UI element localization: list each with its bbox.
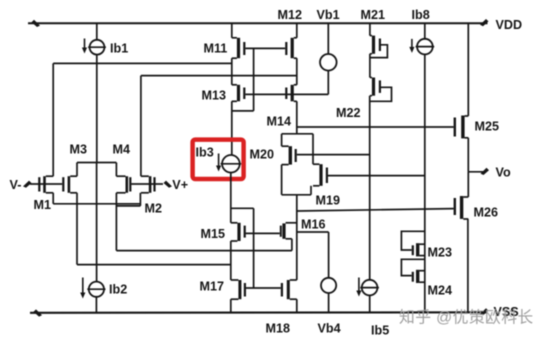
transistor M17: [231, 280, 246, 299]
transistor M4 label: [113, 143, 131, 157]
current source Ib8: [416, 39, 435, 55]
transistor M12 label: [278, 8, 303, 22]
wire M2-source riser: [140, 76, 142, 177]
wire VDD rail: [28, 22, 488, 24]
wire M20 gate line: [297, 154, 370, 156]
port V+ arrow: [164, 181, 173, 188]
watermark zhihu: [399, 309, 534, 327]
current source Ib8 label: [412, 8, 430, 22]
wire M4-drain drop / to midline: [115, 193, 117, 251]
svg-text:M12: M12: [278, 8, 303, 22]
wire M21-drain to M22-source: [369, 54, 371, 78]
wire gate-riser x253: [253, 48, 255, 111]
transistor M21: [370, 36, 381, 54]
wire M24 gate-drain loop: [401, 259, 424, 275]
wire V+ to gates: [131, 183, 163, 185]
transistor M21 label: [361, 8, 386, 22]
wire M14-drain down: [296, 101, 298, 134]
wire node-B horizontal: [141, 75, 297, 77]
transistor M23: [412, 243, 425, 256]
wire M19/M20 drain join: [282, 194, 311, 196]
transistor M18 label: [266, 322, 291, 336]
wire Ib5 to VSS: [369, 295, 371, 312]
svg-text:Ib1: Ib1: [110, 42, 128, 56]
svg-text:Vb1: Vb1: [317, 8, 340, 22]
transistor M20 label: [250, 148, 275, 162]
wire M19-source riser: [312, 134, 314, 164]
current arrow Ib2: [80, 278, 85, 299]
current source Ib5: [360, 280, 379, 296]
transistor M1 label: [34, 198, 52, 212]
node Vo label: [496, 166, 511, 180]
wire drain bus: [53, 203, 140, 205]
wire M17-M18 gate line: [246, 287, 281, 289]
svg-text:M14: M14: [267, 115, 292, 129]
voltage source Vb4 label: [318, 322, 341, 336]
wire link y232 to Vb4: [297, 231, 329, 233]
wire M17-drain to VSS: [230, 299, 232, 313]
svg-text:M25: M25: [475, 120, 500, 134]
svg-text:M23: M23: [428, 246, 453, 260]
svg-text:M21: M21: [361, 8, 386, 22]
wire tail to Ib2: [96, 163, 98, 282]
svg-text:M2: M2: [145, 202, 163, 216]
wire Ib2 to VSS: [95, 297, 97, 313]
svg-text:M13: M13: [202, 89, 227, 103]
wire output node vertical: [296, 195, 298, 280]
transistor M20: [282, 146, 297, 164]
svg-text:Ib3: Ib3: [196, 146, 214, 160]
wire source top-bus: [77, 162, 116, 164]
transistor M2: [141, 176, 156, 193]
wire Vb4 to VSS: [328, 293, 330, 313]
wire M14-drain jog: [282, 133, 313, 135]
transistor M26: [454, 196, 469, 219]
wire M15-drain chain: [230, 241, 232, 280]
current arrow Ib1: [82, 39, 87, 54]
wire M3-drain drop / to lineB: [76, 193, 78, 265]
wire M19-drain drop: [310, 186, 312, 195]
transistor M14 label: [267, 115, 292, 129]
transistor M14: [285, 85, 297, 102]
wire M25-drain to Vo: [467, 138, 469, 172]
svg-text:M18: M18: [266, 322, 291, 336]
svg-text:Ib2: Ib2: [109, 283, 127, 297]
wire M12-drain to M14-source: [296, 58, 298, 85]
svg-text:M16: M16: [301, 218, 326, 232]
wire VDD-to-M12: [296, 23, 298, 38]
transistor M3: [62, 176, 77, 193]
wire M4-source riser: [115, 163, 117, 177]
transistor M22 label: [336, 106, 361, 120]
port V- arrow: [23, 181, 32, 188]
transistor M11: [232, 38, 246, 58]
wire VDD-to-Ib8: [424, 23, 426, 38]
svg-text:M22: M22: [336, 106, 361, 120]
svg-text:知乎 @优策欧科长: 知乎 @优策欧科长: [399, 309, 534, 327]
node VDD-left-tick: [32, 20, 41, 27]
wire M13-drain down: [231, 101, 233, 155]
voltage source Vb4: [321, 278, 336, 293]
svg-text:VDD: VDD: [496, 18, 523, 32]
transistor M13 label: [202, 89, 227, 103]
transistor M19: [313, 164, 328, 186]
wire Vb4 riser: [328, 232, 330, 278]
current arrow Ib5: [356, 278, 361, 297]
transistor M18: [281, 280, 297, 299]
svg-text:M15: M15: [201, 227, 226, 241]
wire VDD-to-Ib1: [96, 23, 98, 40]
wire M22 gate-drain hook: [370, 87, 392, 101]
transistor M19 label: [316, 194, 341, 208]
node VSS-left-tick: [34, 309, 43, 316]
current source Ib2: [87, 282, 105, 297]
node VSS label: [494, 305, 519, 319]
svg-text:M1: M1: [34, 198, 52, 212]
wire VDD right drop: [467, 23, 469, 116]
wire mid link y250: [116, 250, 292, 252]
transistor M17 label: [200, 280, 225, 294]
transistor M25 label: [475, 120, 500, 134]
wire VDD-to-M21: [369, 23, 371, 35]
wire M19 gate line: [328, 175, 425, 177]
wire M1-source riser: [52, 63, 54, 176]
svg-text:M3: M3: [70, 143, 88, 157]
wire VDD-to-Vb1: [327, 23, 329, 54]
svg-text:Ib5: Ib5: [371, 324, 389, 338]
wire M25 gate line: [297, 126, 454, 128]
wire M11-drain to M13-source: [231, 58, 233, 85]
svg-text:M20: M20: [250, 148, 275, 162]
node VDD label: [496, 18, 523, 32]
svg-text:M17: M17: [200, 280, 225, 294]
wire M20-source drop: [281, 134, 283, 146]
wire VDD-to-M11: [231, 23, 233, 38]
transistor M16: [280, 223, 297, 239]
wire M2-drain jog: [116, 205, 140, 207]
wire M15-M16 gate line: [246, 232, 280, 234]
current source Ib3 label: [196, 146, 214, 160]
transistor M24 label: [428, 284, 453, 298]
transistor M22: [370, 78, 381, 96]
wire bias riser x253: [253, 208, 255, 287]
svg-text:M24: M24: [428, 284, 453, 298]
wire Ib1-to-tailbus: [96, 55, 98, 163]
wire Ib3 to M15: [230, 172, 232, 223]
wire M18-source to VSS: [296, 299, 298, 313]
transistor M3 label: [70, 143, 88, 157]
transistor M13: [232, 85, 246, 102]
node VSS-arrow: [480, 308, 489, 315]
wire VSS rail: [30, 311, 488, 314]
wire M26 gate line: [297, 209, 453, 211]
svg-text:M4: M4: [113, 143, 131, 157]
current source Ib2 label: [109, 283, 127, 297]
wire M23 gate-drain loop: [401, 231, 424, 250]
svg-text:Vo: Vo: [496, 166, 511, 180]
wire U-link at y111: [232, 110, 254, 112]
transistor M2 label: [145, 202, 163, 216]
node VDD-arrow: [480, 19, 489, 26]
wire Vo stub: [468, 171, 484, 173]
wire link lineB: [77, 264, 231, 266]
transistor M26 label: [474, 206, 499, 220]
current arrow Ib3: [216, 154, 221, 172]
highlight red box: [193, 140, 244, 179]
wire M22-drain / Ib5 line: [369, 96, 371, 280]
transistor M25: [454, 116, 469, 139]
transistor M15: [231, 223, 246, 241]
wire node-A horizontal: [53, 62, 232, 64]
current source Ib1 label: [110, 42, 128, 56]
transistor M23 label: [428, 246, 453, 260]
svg-text:M11: M11: [204, 42, 228, 56]
wire M21 gate-drain hook: [370, 45, 388, 58]
port V+ label: [172, 178, 188, 192]
wire V- to gates: [30, 183, 62, 185]
current source Ib5 label: [371, 324, 389, 338]
wire M20-drain drop: [281, 165, 283, 195]
wire M26-source to VSS: [467, 219, 469, 313]
wire M1-drain drop: [52, 193, 54, 204]
wire Vo to M26-drain: [467, 172, 469, 197]
current source Ib3: [221, 155, 242, 173]
svg-text:V+: V+: [172, 178, 188, 192]
transistor M1: [38, 176, 53, 193]
svg-text:M19: M19: [316, 194, 341, 208]
wire Ib8 bias vertical: [424, 55, 426, 313]
voltage source Vb1: [320, 54, 337, 71]
transistor M24: [412, 270, 425, 283]
wire M2-drain drop: [139, 193, 141, 206]
port V- label: [10, 178, 22, 192]
wire link y208: [231, 207, 254, 209]
svg-text:V-: V-: [10, 178, 22, 192]
wire Vb1-to-gateline: [327, 71, 329, 95]
node Vo arrow: [481, 168, 490, 175]
current arrow Ib8: [409, 39, 414, 53]
transistor M11 label: [204, 42, 228, 56]
wire M16-source riser: [291, 239, 293, 251]
transistor M12: [285, 38, 297, 58]
svg-text:Vb4: Vb4: [318, 322, 341, 336]
transistor M4: [116, 176, 131, 193]
transistor M16 label: [301, 218, 326, 232]
svg-text:Ib8: Ib8: [412, 8, 430, 22]
wire M3-source riser: [76, 163, 78, 177]
voltage source Vb1 label: [317, 8, 340, 22]
current source Ib1: [88, 40, 106, 55]
wire M13-M14 gate line (Vb1 net): [245, 93, 328, 95]
wire M11-M12 gate line: [245, 47, 285, 49]
transistor M15 label: [201, 227, 226, 241]
svg-text:M26: M26: [474, 206, 499, 220]
